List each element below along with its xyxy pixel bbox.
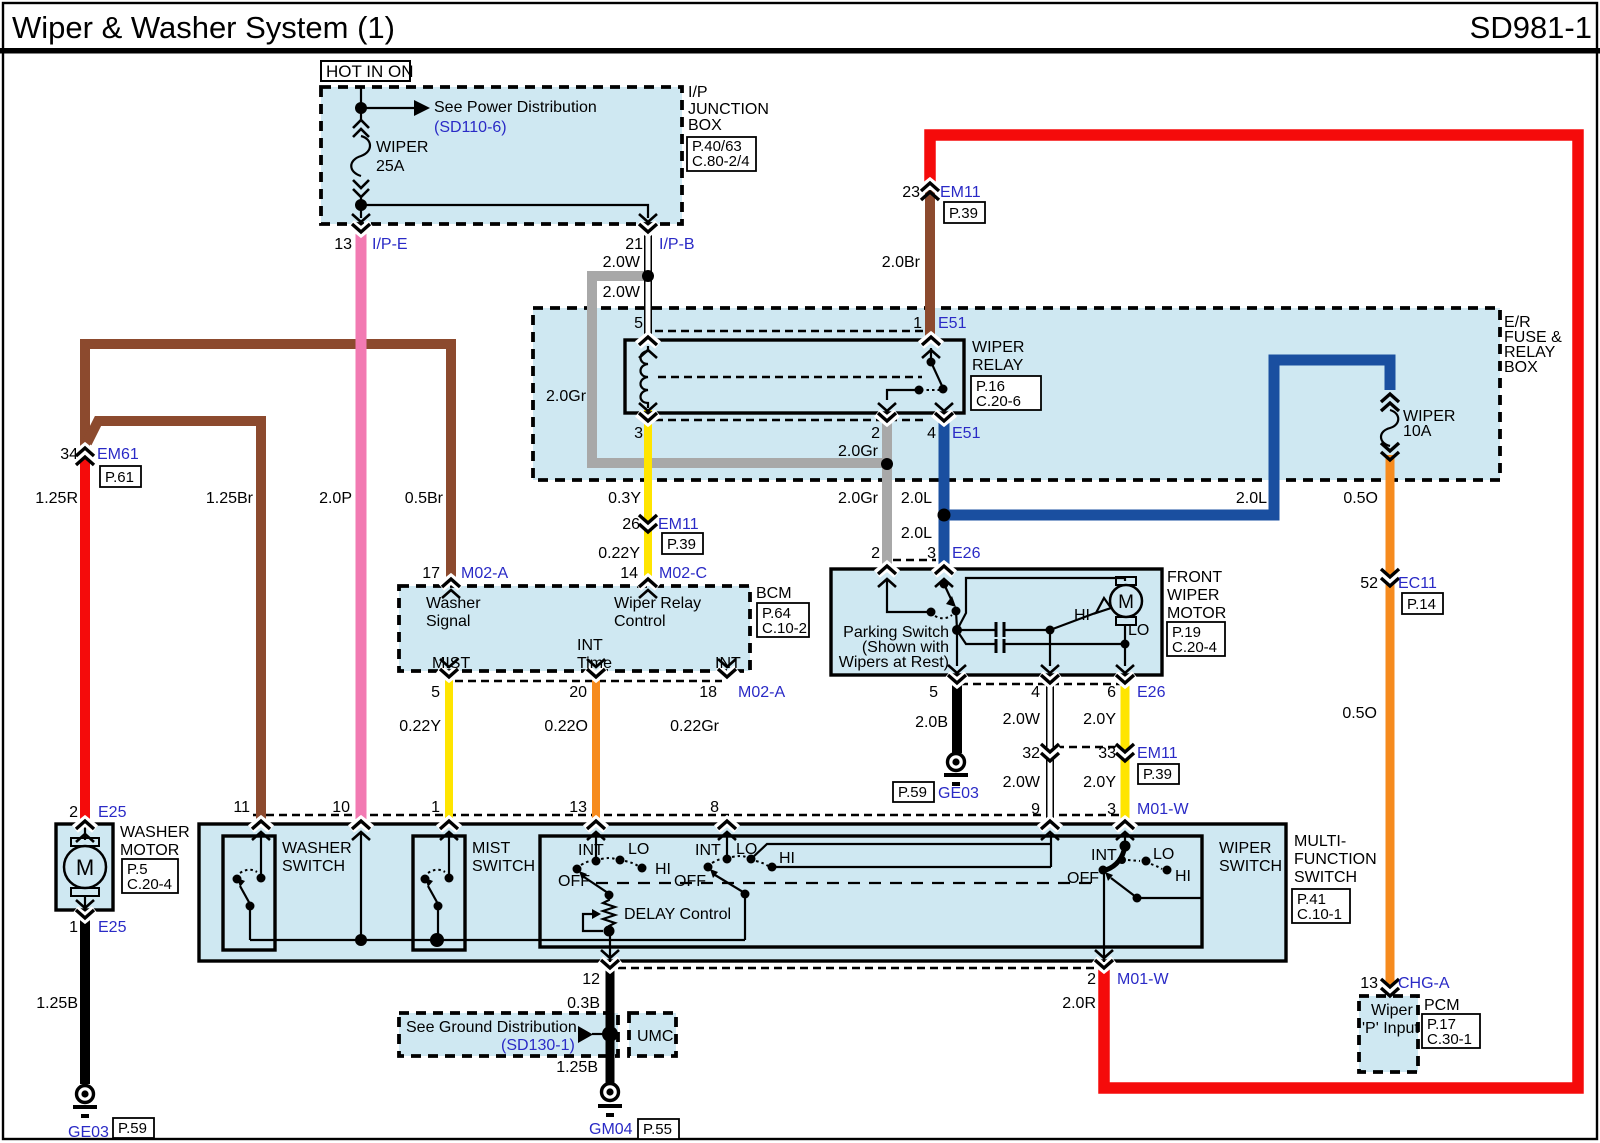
wire to see power distribution bbox=[361, 107, 414, 109]
svg-text:E51: E51 bbox=[952, 425, 981, 442]
washer switch internals bbox=[260, 832, 262, 878]
relay pin 3 chevrons bbox=[639, 403, 657, 411]
svg-text:JUNCTION: JUNCTION bbox=[688, 101, 769, 118]
svg-text:INT: INT bbox=[578, 842, 604, 859]
svg-text:BOX: BOX bbox=[1504, 359, 1538, 376]
svg-text:M02-A: M02-A bbox=[738, 684, 785, 701]
wire down to I/P-E exit bbox=[360, 205, 362, 218]
wiper relay box bbox=[625, 340, 964, 413]
relay internal link row bbox=[658, 376, 922, 379]
svg-text:26: 26 bbox=[622, 516, 640, 533]
svg-text:13: 13 bbox=[569, 799, 587, 816]
svg-text:LO: LO bbox=[1128, 622, 1149, 639]
connector row E26 bottom bbox=[960, 683, 1120, 686]
svg-text:MULTI-: MULTI- bbox=[1294, 833, 1346, 850]
svg-text:2.0P: 2.0P bbox=[319, 490, 352, 507]
svg-text:17: 17 bbox=[422, 565, 440, 582]
svg-text:C.20-6: C.20-6 bbox=[976, 393, 1021, 410]
connector 52 EC11 chevrons bbox=[1380, 573, 1400, 581]
svg-text:P.59: P.59 bbox=[118, 1120, 147, 1137]
BCM pin18 chevrons bbox=[718, 659, 736, 667]
svg-text:10A: 10A bbox=[1403, 423, 1432, 440]
svg-text:2.0L: 2.0L bbox=[901, 490, 932, 507]
E26 pin2 chevrons bbox=[877, 566, 897, 574]
resistor wiper feedback arrow bbox=[583, 914, 603, 931]
svg-text:LO: LO bbox=[736, 841, 757, 858]
svg-text:E25: E25 bbox=[98, 919, 127, 936]
svg-text:21: 21 bbox=[625, 236, 643, 253]
node mist-bus junction bbox=[430, 933, 444, 947]
svg-text:33: 33 bbox=[1098, 745, 1116, 762]
svg-text:OFF: OFF bbox=[558, 873, 590, 890]
switch pin2 chevrons bbox=[1095, 950, 1113, 958]
svg-text:P.39: P.39 bbox=[949, 205, 978, 222]
svg-text:Wipers at Rest): Wipers at Rest) bbox=[839, 654, 949, 671]
svg-text:2.0B: 2.0B bbox=[915, 714, 948, 731]
svg-text:CHG-A: CHG-A bbox=[1398, 975, 1450, 992]
svg-text:C.10-1: C.10-1 bbox=[1297, 906, 1342, 923]
wire 2.0W white motor pin4 to switch pin9 bbox=[1046, 674, 1054, 827]
svg-text:DELAY Control: DELAY Control bbox=[624, 906, 731, 923]
svg-text:'P' Input: 'P' Input bbox=[1362, 1020, 1419, 1037]
svg-text:Signal: Signal bbox=[426, 613, 470, 630]
svg-text:M02-A: M02-A bbox=[461, 565, 508, 582]
svg-text:HI: HI bbox=[1175, 868, 1191, 885]
junction dot white wire / gray bbox=[642, 270, 654, 282]
node junction black wire UMC bbox=[602, 1026, 618, 1042]
ref boxes bbox=[100, 137, 1480, 1139]
mist switch inner box bbox=[413, 836, 465, 950]
svg-text:P.39: P.39 bbox=[667, 536, 696, 553]
ground distribution arrow bbox=[578, 1026, 593, 1043]
ground GE03 washer motor bbox=[73, 1086, 97, 1117]
motor internals bbox=[887, 580, 928, 612]
wire 1.25B black washer motor to GE03 bbox=[80, 913, 90, 1084]
see ground distribution box bbox=[399, 1013, 618, 1056]
svg-text:0.3Y: 0.3Y bbox=[608, 490, 641, 507]
svg-text:FRONT: FRONT bbox=[1167, 569, 1222, 586]
svg-text:9: 9 bbox=[1031, 801, 1040, 818]
wire bbox=[360, 88, 362, 108]
wire 2.0Y yellow motor pin6 to switch pin3 bbox=[1121, 676, 1130, 827]
svg-text:11: 11 bbox=[233, 799, 250, 816]
svg-text:Control: Control bbox=[614, 613, 666, 630]
connector row M01-W bottom of switch bbox=[618, 967, 1098, 970]
svg-text:5: 5 bbox=[634, 315, 643, 332]
connector row E26 top bbox=[893, 559, 936, 562]
svg-text:2.0Y: 2.0Y bbox=[1083, 774, 1116, 791]
relay coil bbox=[641, 346, 649, 408]
wire 2.0L blue relay pin4 to E26 pin3 bbox=[939, 416, 950, 572]
connector 33 chevrons bbox=[1115, 748, 1135, 756]
svg-text:10: 10 bbox=[332, 799, 350, 816]
svg-text:GE03: GE03 bbox=[938, 785, 979, 802]
capacitor line 2 bbox=[958, 632, 1125, 644]
svg-text:1: 1 bbox=[69, 919, 78, 936]
ground GE03 front wiper motor bbox=[944, 754, 968, 785]
svg-text:2.0W: 2.0W bbox=[603, 284, 641, 301]
connector row E51 bottom bbox=[655, 419, 925, 422]
svg-text:2: 2 bbox=[871, 425, 880, 442]
fuse WIPER 10A bbox=[1381, 394, 1399, 411]
wire 1.25Br brown jog EM61 to washer switch pin11 bbox=[87, 421, 261, 827]
svg-text:INT: INT bbox=[1091, 847, 1117, 864]
svg-text:2.0W: 2.0W bbox=[1003, 711, 1041, 728]
node junction 2 bbox=[355, 199, 367, 211]
svg-text:5: 5 bbox=[929, 684, 938, 701]
connector 34 EM61 chevrons bbox=[75, 448, 95, 456]
middle switch group bbox=[726, 832, 728, 859]
HI brush bbox=[1096, 598, 1111, 613]
svg-text:1.25Br: 1.25Br bbox=[206, 490, 254, 507]
delay switch group bbox=[595, 832, 597, 861]
switch common bus bbox=[250, 939, 745, 941]
front wiper motor box bbox=[831, 569, 1162, 675]
svg-text:EM11: EM11 bbox=[658, 516, 699, 533]
pink wire inside switch bbox=[360, 832, 362, 940]
motor M bbox=[1110, 585, 1142, 617]
svg-text:SWITCH: SWITCH bbox=[282, 858, 345, 875]
connector row E51 top bbox=[655, 330, 925, 333]
svg-text:WIPER: WIPER bbox=[376, 139, 428, 156]
svg-text:2: 2 bbox=[871, 545, 880, 562]
svg-text:GM04: GM04 bbox=[589, 1121, 633, 1138]
HOT IN ON box bbox=[321, 61, 410, 81]
svg-text:Washer: Washer bbox=[426, 595, 481, 612]
svg-text:2: 2 bbox=[69, 804, 78, 821]
fuse WIPER 25A bbox=[360, 108, 362, 120]
wire to motor HI brush top bbox=[957, 578, 1125, 630]
svg-text:WIPER: WIPER bbox=[1167, 587, 1219, 604]
svg-text:MOTOR: MOTOR bbox=[120, 842, 179, 859]
wire 2.0W white I/P-B to relay pin5 bbox=[644, 227, 652, 343]
relay pin 5 chevrons bbox=[638, 337, 658, 345]
svg-text:0.22Y: 0.22Y bbox=[598, 545, 640, 562]
svg-text:SWITCH: SWITCH bbox=[1219, 858, 1282, 875]
svg-text:3: 3 bbox=[1107, 801, 1116, 818]
svg-text:4: 4 bbox=[927, 425, 936, 442]
wire 2.0R red ring switch pin2 to EM11 bbox=[930, 135, 1578, 1088]
connector row M02 bottom of BCM bbox=[455, 680, 722, 683]
wiper switch group bbox=[1124, 832, 1126, 845]
svg-text:2.0R: 2.0R bbox=[1062, 995, 1096, 1012]
svg-text:Wiper: Wiper bbox=[1371, 1002, 1413, 1019]
relay pin 1 chevrons bbox=[921, 337, 941, 345]
wire 0.22Y yellow BCM pin5 to switch pin1 bbox=[445, 674, 453, 827]
connector row EM11 32/33 bbox=[1056, 746, 1118, 749]
svg-text:6: 6 bbox=[1107, 684, 1116, 701]
capacitor line 1 bbox=[957, 629, 1050, 631]
svg-text:I/P-B: I/P-B bbox=[659, 236, 695, 253]
svg-text:C.80-2/4: C.80-2/4 bbox=[692, 153, 750, 170]
svg-text:20: 20 bbox=[569, 684, 587, 701]
svg-text:M02-C: M02-C bbox=[659, 565, 707, 582]
svg-text:Wiper Relay: Wiper Relay bbox=[614, 595, 701, 612]
svg-text:0.5O: 0.5O bbox=[1342, 705, 1377, 722]
svg-text:2.0Y: 2.0Y bbox=[1083, 711, 1116, 728]
svg-text:EC11: EC11 bbox=[1398, 575, 1437, 592]
svg-text:2.0W: 2.0W bbox=[603, 254, 641, 271]
svg-text:P.61: P.61 bbox=[105, 469, 134, 486]
svg-text:1.25R: 1.25R bbox=[35, 490, 78, 507]
svg-text:WASHER: WASHER bbox=[120, 824, 190, 841]
wire 0.3Y yellow relay pin3 to BCM pin14 bbox=[644, 410, 652, 583]
svg-text:MOTOR: MOTOR bbox=[1167, 605, 1226, 622]
PCM box bbox=[1359, 996, 1418, 1072]
relay pin 2 chevrons bbox=[878, 403, 896, 411]
svg-text:M01-W: M01-W bbox=[1137, 801, 1189, 818]
svg-text:0.22O: 0.22O bbox=[544, 718, 588, 735]
multi-function switch box bbox=[199, 824, 1286, 961]
switch pins top chevrons 11,10,1,13,8,9,3 bbox=[251, 821, 1135, 840]
BCM pin17 chevrons bbox=[441, 579, 461, 587]
BCM pin14 chevrons bbox=[638, 579, 658, 587]
svg-text:2.0L: 2.0L bbox=[901, 525, 932, 542]
wire 2.0L blue to wiper 10A fuse bbox=[944, 360, 1390, 515]
washer motor pin2 chevrons bbox=[75, 821, 95, 829]
svg-text:INT: INT bbox=[695, 842, 721, 859]
svg-text:25A: 25A bbox=[376, 158, 405, 175]
svg-text:SD981-1: SD981-1 bbox=[1470, 10, 1592, 45]
svg-text:23: 23 bbox=[902, 184, 920, 201]
wire 0.3B black switch pin12 to GM04 bbox=[606, 964, 615, 1083]
BCM box bbox=[399, 586, 750, 671]
BCM pin20 chevrons bbox=[587, 659, 605, 667]
svg-text:3: 3 bbox=[634, 425, 643, 442]
svg-text:12: 12 bbox=[582, 971, 600, 988]
svg-text:1.25B: 1.25B bbox=[36, 995, 78, 1012]
mechanical link dashed bbox=[596, 882, 1100, 884]
svg-text:0.5Br: 0.5Br bbox=[405, 490, 444, 507]
wire LO to pin9 bbox=[751, 844, 1051, 859]
svg-text:M: M bbox=[1118, 592, 1134, 613]
node pink-bus junction bbox=[355, 934, 367, 946]
svg-text:E51: E51 bbox=[938, 315, 967, 332]
svg-text:WASHER: WASHER bbox=[282, 840, 352, 857]
svg-text:1: 1 bbox=[913, 315, 922, 332]
svg-text:2: 2 bbox=[1087, 971, 1096, 988]
svg-text:PCM: PCM bbox=[1424, 997, 1460, 1014]
svg-text:I/P: I/P bbox=[688, 84, 708, 101]
svg-text:EM11: EM11 bbox=[940, 184, 981, 201]
svg-text:E26: E26 bbox=[952, 545, 981, 562]
svg-text:See Power Distribution: See Power Distribution bbox=[434, 99, 597, 116]
wires to bottom pins bbox=[956, 630, 958, 666]
svg-text:OFF: OFF bbox=[674, 873, 706, 890]
svg-text:1.25B: 1.25B bbox=[556, 1059, 598, 1076]
svg-text:13: 13 bbox=[1360, 975, 1378, 992]
junction dot gray bbox=[881, 458, 893, 470]
svg-text:BCM: BCM bbox=[756, 585, 792, 602]
svg-text:2.0Br: 2.0Br bbox=[882, 254, 921, 271]
svg-text:HI: HI bbox=[655, 861, 671, 878]
svg-text:SWITCH: SWITCH bbox=[472, 858, 535, 875]
svg-text:E26: E26 bbox=[1137, 684, 1166, 701]
svg-text:LO: LO bbox=[1153, 846, 1174, 863]
wire 2.0Gr gray branch bbox=[592, 276, 887, 463]
svg-text:MIST: MIST bbox=[472, 840, 510, 857]
svg-text:0.22Gr: 0.22Gr bbox=[670, 718, 720, 735]
connector 13 I/P-E chevrons bbox=[352, 214, 370, 222]
wire across to I/P-B exit bbox=[361, 205, 648, 218]
wire 2.0B black motor pin5 to GE03 bbox=[952, 677, 962, 753]
svg-text:2.0Gr: 2.0Gr bbox=[838, 490, 879, 507]
svg-text:M: M bbox=[76, 855, 94, 880]
svg-text:INT: INT bbox=[577, 637, 603, 654]
title rule bbox=[0, 48, 1600, 54]
wire 2.0Gr gray relay pin2 to motor pin2 bbox=[882, 416, 892, 572]
svg-text:P.55: P.55 bbox=[643, 1121, 672, 1138]
svg-text:SWITCH: SWITCH bbox=[1294, 869, 1357, 886]
washer motor internals bbox=[84, 827, 86, 840]
washer switch inner box bbox=[223, 836, 275, 950]
svg-text:HI: HI bbox=[1074, 607, 1090, 624]
svg-text:C.30-1: C.30-1 bbox=[1427, 1031, 1472, 1048]
svg-text:3: 3 bbox=[927, 545, 936, 562]
motor pin6 chevrons bbox=[1116, 665, 1134, 673]
svg-text:M01-W: M01-W bbox=[1117, 971, 1169, 988]
svg-text:C.20-4: C.20-4 bbox=[1172, 639, 1217, 656]
svg-text:2.0Gr: 2.0Gr bbox=[546, 388, 587, 405]
svg-text:EM11: EM11 bbox=[1137, 745, 1178, 762]
wire 0.22O orange BCM pin20 to switch pin13 bbox=[592, 674, 600, 827]
svg-text:OFF: OFF bbox=[1067, 870, 1099, 887]
svg-text:BOX: BOX bbox=[688, 117, 722, 134]
node junction bbox=[355, 102, 367, 114]
svg-text:0.3B: 0.3B bbox=[567, 995, 600, 1012]
wire HI line bbox=[772, 866, 1051, 868]
connector 23 EM11 chevrons bbox=[920, 183, 940, 191]
svg-text:2.0Gr: 2.0Gr bbox=[838, 443, 879, 460]
svg-text:2.0L: 2.0L bbox=[1236, 490, 1267, 507]
svg-text:(SD130-1): (SD130-1) bbox=[501, 1037, 575, 1054]
motor pin4 chevrons bbox=[1041, 665, 1059, 673]
svg-text:HI: HI bbox=[779, 850, 795, 867]
svg-text:FUNCTION: FUNCTION bbox=[1294, 851, 1377, 868]
E/R fuse and relay box bbox=[533, 308, 1500, 480]
relay switch bbox=[930, 348, 932, 361]
I/P junction box bbox=[321, 87, 682, 224]
washer motor pin1 chevrons bbox=[76, 900, 94, 908]
connector row M01-W top of switch bbox=[253, 814, 1127, 817]
ground GM04 bbox=[598, 1084, 622, 1116]
svg-text:HOT IN ON: HOT IN ON bbox=[326, 62, 414, 81]
svg-text:GE03: GE03 bbox=[68, 1124, 109, 1141]
svg-text:EM61: EM61 bbox=[97, 446, 139, 463]
svg-text:P.39: P.39 bbox=[1143, 766, 1172, 783]
svg-text:1: 1 bbox=[431, 799, 440, 816]
svg-text:8: 8 bbox=[710, 799, 719, 816]
svg-text:P.59: P.59 bbox=[898, 784, 927, 801]
wiper switch inner box bbox=[540, 836, 1202, 947]
svg-text:(SD110-6): (SD110-6) bbox=[434, 119, 507, 136]
svg-text:WIPER: WIPER bbox=[972, 339, 1024, 356]
wire 2.0Br brown EM11 to relay pin1 bbox=[925, 190, 935, 341]
svg-text:52: 52 bbox=[1360, 575, 1378, 592]
svg-text:P.14: P.14 bbox=[1407, 596, 1436, 613]
svg-text:0.22Y: 0.22Y bbox=[399, 718, 441, 735]
junction dot blue bbox=[938, 509, 951, 522]
wire 0.5Br brown EM61 up over to BCM pin17 bbox=[85, 344, 451, 581]
motor pin5 chevrons bbox=[948, 665, 966, 673]
connector 32 chevrons bbox=[1040, 748, 1060, 756]
svg-text:Time: Time bbox=[577, 655, 612, 672]
svg-text:18: 18 bbox=[699, 684, 717, 701]
switch pin12 chevrons bbox=[601, 950, 619, 958]
svg-text:MIST: MIST bbox=[432, 655, 470, 672]
relay pin 4 chevrons bbox=[935, 403, 953, 411]
svg-text:E25: E25 bbox=[98, 804, 127, 821]
svg-text:32: 32 bbox=[1022, 745, 1040, 762]
E26 pin3 chevrons bbox=[934, 566, 954, 574]
connector 21 I/P-B chevrons bbox=[639, 214, 657, 222]
svg-text:LO: LO bbox=[628, 841, 649, 858]
svg-text:2.0W: 2.0W bbox=[1003, 774, 1041, 791]
svg-text:13: 13 bbox=[334, 236, 352, 253]
svg-text:C.10-2: C.10-2 bbox=[762, 620, 807, 637]
svg-text:14: 14 bbox=[620, 565, 638, 582]
BCM pin5 chevrons bbox=[440, 659, 458, 667]
svg-text:WIPER: WIPER bbox=[1219, 840, 1271, 857]
wire 2.0P pink I/P-E to switch pin10 bbox=[356, 229, 367, 827]
wire 0.5O orange fuse to PCM bbox=[1386, 455, 1395, 994]
svg-text:Wiper & Washer System (1): Wiper & Washer System (1) bbox=[12, 10, 395, 45]
svg-text:RELAY: RELAY bbox=[972, 357, 1024, 374]
svg-text:5: 5 bbox=[431, 684, 440, 701]
mist switch internals bbox=[448, 832, 450, 878]
pin9 wire inside switch bbox=[1050, 832, 1052, 867]
svg-text:See Ground Distribution: See Ground Distribution bbox=[406, 1019, 577, 1036]
connector 13 CHG-A chevrons bbox=[1380, 983, 1400, 991]
svg-text:I/P-E: I/P-E bbox=[372, 236, 408, 253]
svg-text:UMC: UMC bbox=[637, 1028, 673, 1045]
svg-text:34: 34 bbox=[60, 446, 78, 463]
svg-text:C.20-4: C.20-4 bbox=[127, 876, 172, 893]
delay control resistor bbox=[603, 895, 615, 929]
svg-text:0.5O: 0.5O bbox=[1343, 490, 1378, 507]
connector 26 EM11 chevrons bbox=[638, 519, 658, 527]
svg-text:4: 4 bbox=[1031, 684, 1040, 701]
washer motor box bbox=[56, 824, 113, 910]
parking switch arm bbox=[944, 584, 951, 599]
svg-text:INT: INT bbox=[715, 655, 741, 672]
wire 1.25R red EM61 to washer motor bbox=[80, 459, 90, 827]
UMC box bbox=[629, 1013, 676, 1056]
